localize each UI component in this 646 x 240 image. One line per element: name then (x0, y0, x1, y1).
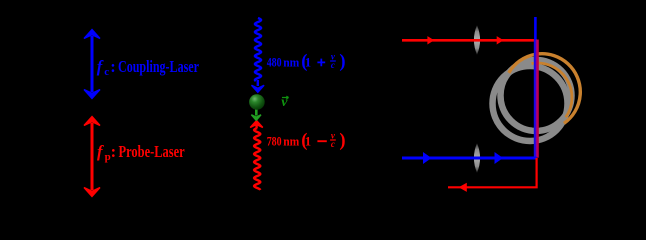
svg-text:): ) (339, 52, 345, 72)
svg-text:Probe-Laser: Probe-Laser (119, 142, 185, 161)
svg-text:nm: nm (283, 134, 299, 148)
svg-text:Coupling-Laser: Coupling-Laser (118, 57, 199, 76)
svg-text:1: 1 (305, 134, 311, 148)
svg-text:): ) (339, 131, 345, 151)
svg-text:c: c (104, 66, 109, 78)
svg-text:c: c (331, 139, 335, 149)
svg-text:780: 780 (267, 134, 282, 148)
svg-text::: : (111, 142, 117, 161)
svg-text::: : (110, 57, 116, 76)
svg-text:nm: nm (283, 55, 299, 69)
svg-text:c: c (331, 60, 335, 70)
svg-text:480: 480 (267, 55, 282, 69)
svg-text:1: 1 (305, 55, 311, 69)
